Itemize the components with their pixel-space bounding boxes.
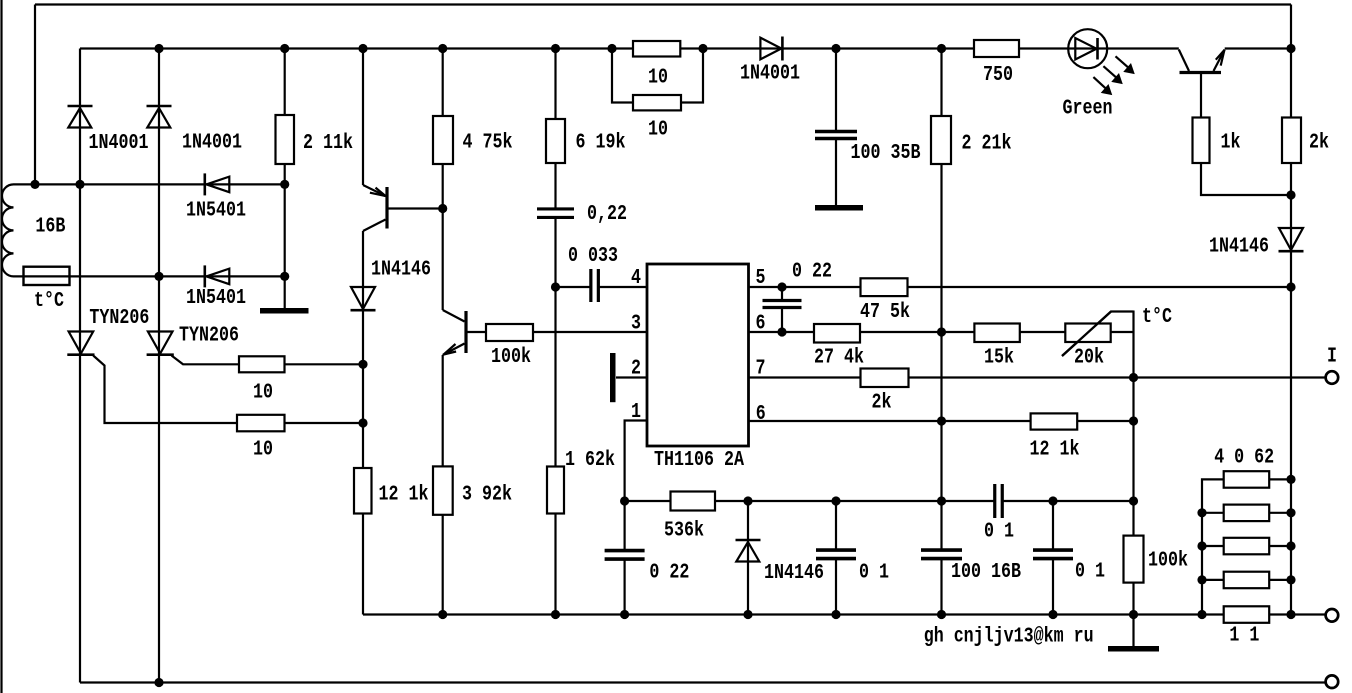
resistor ladder #4 xyxy=(1224,572,1270,589)
svg-text:0 033: 0 033 xyxy=(568,245,618,268)
svg-text:2 11k: 2 11k xyxy=(303,132,353,155)
svg-text:0 1: 0 1 xyxy=(984,521,1014,544)
svg-text:I: I xyxy=(1327,346,1337,369)
wire ladder row1 right xyxy=(1269,478,1291,480)
svg-text:5: 5 xyxy=(756,267,766,290)
svg-text:4 75k: 4 75k xyxy=(463,132,513,155)
resistor 1 62k xyxy=(547,467,564,514)
resistor 15k xyxy=(974,324,1019,343)
resistor R4 4 75k xyxy=(433,116,453,164)
resistor 2k pin7 xyxy=(861,369,909,388)
resistor ladder #2 xyxy=(1224,505,1270,521)
svg-text:100k: 100k xyxy=(491,346,531,369)
thermistor 20k diagonal xyxy=(1062,312,1111,357)
wire Q3 base column xyxy=(1200,74,1202,118)
ground bottom right xyxy=(1108,646,1159,652)
wire ladder row2 right xyxy=(1269,512,1291,514)
svg-text:536k: 536k xyxy=(664,519,704,542)
capacitor 0 1 bottom left xyxy=(816,548,856,552)
svg-text:10: 10 xyxy=(253,382,273,405)
junction dots xyxy=(154,44,163,53)
svg-text:1: 1 xyxy=(631,401,641,424)
resistor 47 5k xyxy=(861,278,908,296)
svg-text:TH1106 2A: TH1106 2A xyxy=(654,449,744,472)
wire second rail (+V bus) xyxy=(80,47,1179,49)
wire ladder row3 left xyxy=(1202,545,1224,547)
wire pin5 row xyxy=(749,286,1292,288)
resistor 3 92k xyxy=(433,466,453,514)
wire R7 column (2 21k) upper xyxy=(940,49,942,550)
resistor 100k right xyxy=(1124,536,1144,583)
terminal 2 xyxy=(1326,609,1339,622)
capacitor 0 22 pin5-6 xyxy=(763,299,802,302)
svg-text:10: 10 xyxy=(648,119,668,142)
svg-text:1N4146: 1N4146 xyxy=(1209,235,1269,258)
wire emitter segment to right column xyxy=(1225,47,1291,49)
resistor 12 1k right xyxy=(1031,413,1078,429)
wire right column 2k/diode xyxy=(1290,49,1292,615)
resistor 750 xyxy=(974,40,1019,57)
svg-text:2k: 2k xyxy=(872,392,892,415)
diode VD 1N4146 at Q1 xyxy=(351,287,375,309)
diode D5 1N4001 series xyxy=(760,38,781,60)
LED HL1 triangle xyxy=(1075,38,1096,60)
svg-text:10: 10 xyxy=(253,439,273,462)
wire feedback row 536k xyxy=(625,500,994,502)
svg-text:47 5k: 47 5k xyxy=(860,301,910,324)
wire TYN206 VS1 gate xyxy=(93,356,363,424)
svg-text:6: 6 xyxy=(756,313,766,336)
resistor 10 gate lower xyxy=(237,415,285,432)
svg-text:100 35В: 100 35В xyxy=(851,142,921,165)
svg-text:TYN206: TYN206 xyxy=(179,324,239,347)
svg-text:2k: 2k xyxy=(1309,132,1329,155)
resistor 2k top right xyxy=(1282,118,1301,164)
svg-text:0 1: 0 1 xyxy=(859,562,889,585)
wire Q1 emitter column xyxy=(362,49,364,186)
diode VD 1N4146 right xyxy=(1279,228,1303,250)
resistor 27 4k xyxy=(814,324,860,343)
wire R5 column (6 19k) xyxy=(554,49,556,210)
wire winding upper bus xyxy=(14,183,285,185)
svg-text:1N4001: 1N4001 xyxy=(182,132,242,155)
resistor R5 6 19k xyxy=(546,119,565,163)
wire C column below 0,22 xyxy=(554,218,556,615)
resistor 536k xyxy=(671,492,716,511)
transistor Q3 collector diagonal xyxy=(1179,50,1189,72)
svg-text:2 21k: 2 21k xyxy=(962,132,1012,155)
svg-text:1N4146: 1N4146 xyxy=(371,259,431,282)
svg-text:4 0 62: 4 0 62 xyxy=(1214,446,1274,469)
wire C3 column lower to ground xyxy=(835,140,837,205)
svg-text:1N5401: 1N5401 xyxy=(186,200,246,223)
transistor Q1 emitter diagonal xyxy=(363,185,386,196)
wire thermistor t-column xyxy=(1132,311,1134,647)
wire diode column D2 / VS2 column xyxy=(158,49,160,683)
wire Q1 base lead xyxy=(389,207,443,209)
svg-text:27 4k: 27 4k xyxy=(814,347,864,370)
wire pin6 row xyxy=(749,331,1112,333)
LED HL1 Green circle xyxy=(1068,29,1107,68)
transistor Q3 base bar xyxy=(1180,71,1222,74)
wire pin2 lead xyxy=(616,376,647,378)
wire pin6 corner to t-column xyxy=(1111,331,1134,333)
transistor Q1 emitter arrow xyxy=(370,188,386,196)
thyristor VS1 TYN206 xyxy=(69,332,94,354)
wire Q2 base lead / pin3 row xyxy=(468,331,648,333)
wire ladder row3 right xyxy=(1269,545,1291,547)
electrode bar pin2 xyxy=(610,353,616,402)
svg-text:1N5401: 1N5401 xyxy=(186,287,246,310)
wire cap column 0 1 bottom-left lower xyxy=(835,560,837,615)
capacitor C3 100 35B xyxy=(815,130,857,134)
svg-text:6 19k: 6 19k xyxy=(576,132,626,155)
svg-text:15k: 15k xyxy=(984,347,1014,370)
svg-text:gh cnjljv13@km ru: gh cnjljv13@km ru xyxy=(924,626,1094,649)
transistor Q1 base bar xyxy=(385,187,388,229)
svg-text:6: 6 xyxy=(756,403,766,426)
svg-text:20k: 20k xyxy=(1074,347,1104,370)
LED HL1 cathode bar xyxy=(1096,38,1099,60)
capacitor 0 033 xyxy=(589,269,592,302)
svg-text:1N4001: 1N4001 xyxy=(89,132,149,155)
transistor Q3 emitter arrow xyxy=(1216,50,1225,66)
wire thermistor tail xyxy=(1062,312,1134,357)
capacitor 0 1 bottom right xyxy=(1033,548,1073,552)
wire C3 column upper xyxy=(835,49,837,131)
resistor 10 parallel top xyxy=(633,41,680,57)
wire Q1 collector column to bus xyxy=(362,231,364,615)
LED HL1 arrow 3 xyxy=(1093,77,1107,90)
wire thyristor VS1 column xyxy=(79,184,81,682)
resistor 12 1k left xyxy=(354,468,372,514)
wire Q2 emitter column to bus xyxy=(442,355,444,615)
wire pin4 row left xyxy=(556,286,590,288)
svg-text:1 1: 1 1 xyxy=(1229,625,1259,648)
wire pin4 row right xyxy=(600,286,648,288)
diode D3 1N5401 xyxy=(204,173,207,195)
wire TYN206 VS2 gate xyxy=(172,356,364,365)
diode VD 1N4146 bottom xyxy=(736,539,761,542)
inductor T1 winding 16V xyxy=(2,184,13,276)
resistor ladder #5 1 1 xyxy=(1224,606,1270,623)
thyristor VS2 TYN206 xyxy=(148,332,173,354)
svg-text:4: 4 xyxy=(631,267,641,290)
wire top positive rail xyxy=(35,3,1291,5)
LED HL1 arrow 2 xyxy=(1103,66,1118,79)
svg-text:3 92k: 3 92k xyxy=(462,484,512,507)
wire pin5 cap stub upper xyxy=(781,287,783,301)
resistor 1k xyxy=(1193,118,1210,164)
svg-text:t°C: t°C xyxy=(1142,306,1172,329)
wire R 1k bottom lead xyxy=(1201,163,1291,195)
wire bottom return rail xyxy=(80,681,1326,683)
diode D2 1N4001 xyxy=(147,105,172,108)
wire pin8 row xyxy=(749,420,1134,422)
wire feedback row right of series cap xyxy=(1003,500,1134,502)
svg-text:1 62k: 1 62k xyxy=(565,449,615,472)
svg-text:0 22: 0 22 xyxy=(649,562,689,585)
wire pin1 lead xyxy=(625,421,647,551)
svg-text:1N4146: 1N4146 xyxy=(764,562,824,585)
transistor Q2 emitter arrow xyxy=(444,344,457,355)
op-amp U1 TH1106 2A body xyxy=(647,264,749,446)
resistor 10 parallel bottom xyxy=(633,95,681,110)
resistor R1 2 11k xyxy=(276,115,295,164)
svg-text:0 22: 0 22 xyxy=(792,261,832,284)
svg-text:3: 3 xyxy=(631,313,641,336)
capacitor 0,22 xyxy=(537,207,574,210)
transistor Q2 collector diagonal xyxy=(443,310,465,322)
resistor 20k thermistor body xyxy=(1065,324,1110,343)
transistor Q3 emitter diagonal xyxy=(1214,50,1225,72)
capacitor 0 1 series xyxy=(993,484,996,518)
wire cap column 0 1 bottom-left xyxy=(835,501,837,549)
diode D4 1N5401 xyxy=(204,265,207,287)
svg-text:10: 10 xyxy=(648,67,668,90)
resistor 10 gate upper xyxy=(239,356,285,372)
svg-text:100 16В: 100 16В xyxy=(951,561,1021,584)
resistor ladder 4 0 62 #1 xyxy=(1224,471,1270,488)
wire cap column 0 1 right xyxy=(1052,501,1054,549)
wire diode column bottom 1N4146 xyxy=(747,501,749,615)
wire top rail right drop xyxy=(1290,5,1292,49)
resistor R7 2 21k xyxy=(931,116,951,164)
wire ladder row2 left xyxy=(1202,512,1224,514)
wire bottom bus xyxy=(363,613,1326,615)
svg-text:100k: 100k xyxy=(1148,550,1188,573)
svg-text:12 1k: 12 1k xyxy=(379,484,429,507)
svg-text:0,22: 0,22 xyxy=(587,203,627,226)
transistor Q1 collector diagonal xyxy=(363,220,386,232)
wire ladder row4 right xyxy=(1269,579,1291,581)
wire 10-ohm bypass loop xyxy=(612,49,703,103)
wire diode column D1 xyxy=(79,49,81,185)
svg-text:0 1: 0 1 xyxy=(1075,561,1105,584)
wire R4 column (4 75k) xyxy=(442,49,444,311)
capacitor 100 16B xyxy=(921,548,962,552)
resistor ladder #3 xyxy=(1224,538,1270,555)
svg-text:TYN206: TYN206 xyxy=(89,307,149,330)
wire ladder left bus xyxy=(1202,479,1224,614)
wire pin5 cap stub lower xyxy=(781,308,783,333)
wire left scan border xyxy=(0,0,2,693)
svg-text:750: 750 xyxy=(983,64,1013,87)
fuse t°C thermal xyxy=(24,267,70,285)
terminal 1 xyxy=(1326,371,1339,384)
wire ladder row4 left xyxy=(1202,579,1224,581)
LED HL1 arrow 1 xyxy=(1116,56,1131,69)
transistor Q2 emitter diagonal xyxy=(443,344,465,356)
wire cap column 0 1 right lower xyxy=(1052,560,1054,615)
ground under C3 xyxy=(815,205,863,211)
capacitor 0 22 bottom xyxy=(605,549,645,553)
wire top rail left drop to winding bus xyxy=(34,5,36,185)
svg-text:1N4001: 1N4001 xyxy=(740,63,800,86)
ground under R1 xyxy=(260,308,309,314)
wire pin1 column lower xyxy=(623,560,625,615)
wire pin7 row to terminal xyxy=(749,376,1326,378)
terminal 3 xyxy=(1326,675,1339,688)
transistor Q2 base bar xyxy=(464,311,467,353)
svg-text:Green: Green xyxy=(1063,97,1113,120)
wire R7 column lower xyxy=(940,560,942,615)
svg-text:12 1k: 12 1k xyxy=(1030,439,1080,462)
svg-text:16В: 16В xyxy=(35,216,65,239)
diode D1 1N4001 xyxy=(68,105,93,108)
svg-text:t°C: t°C xyxy=(34,290,64,313)
svg-text:2: 2 xyxy=(631,358,641,381)
wire resistor R1 column xyxy=(284,49,286,309)
resistor 100k Q2 base xyxy=(486,324,533,341)
wire winding lower bus through fuse xyxy=(14,275,285,277)
svg-text:1k: 1k xyxy=(1221,132,1241,155)
svg-text:7: 7 xyxy=(756,358,766,381)
